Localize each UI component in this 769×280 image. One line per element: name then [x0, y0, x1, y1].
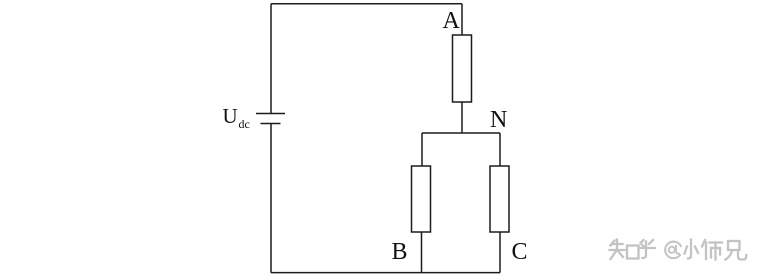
svg-text:dc: dc — [239, 117, 250, 131]
svg-text:B: B — [392, 239, 408, 265]
wire: top horizontal — [271, 3, 462, 5]
label U_dc — [223, 104, 250, 131]
svg-text:A: A — [443, 8, 461, 34]
svg-text:N: N — [490, 107, 507, 133]
resistor B (phase B winding) — [412, 166, 431, 232]
battery U_dc plates — [256, 114, 285, 124]
wire: top right vertical down to resistor A — [461, 4, 463, 35]
wire: resistor A bottom to node N bar — [461, 102, 463, 133]
wire: node N horizontal bar — [422, 132, 500, 134]
wire: right branch vertical to resistor C — [499, 133, 501, 166]
wire: bottom horizontal — [271, 272, 500, 274]
wire: left vertical, battery bottom plate down to bottom wire — [270, 124, 272, 273]
svg-text:U: U — [223, 104, 238, 128]
resistor A (phase A winding) — [453, 35, 472, 102]
watermark 知乎 @小师兄 — [607, 237, 746, 259]
wire: left vertical, top wire down to battery top plate — [270, 4, 272, 114]
wire: resistor B bottom to bottom wire — [421, 232, 423, 273]
wire: left branch vertical to resistor B — [421, 133, 423, 166]
resistor C (phase C winding) — [490, 166, 509, 232]
wire: resistor C bottom to bottom wire — [499, 232, 501, 273]
svg-text:C: C — [512, 239, 528, 265]
